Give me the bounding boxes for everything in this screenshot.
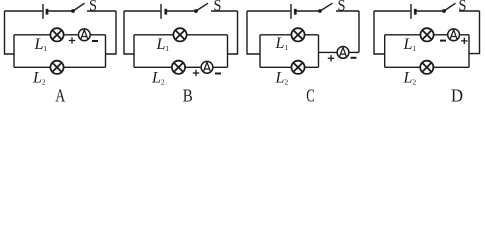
lamp L2 (C): [291, 61, 304, 74]
svg-text:L1: L1: [156, 36, 170, 53]
wire: C inner loop right side: [318, 35, 320, 68]
wire: C outer left vertical + connector: [247, 11, 260, 54]
lamp L2 (B): [172, 61, 185, 74]
wire: C top branch, left of lamp L1: [260, 34, 291, 36]
ammeter (D): [448, 29, 460, 41]
ammeter (A): [78, 29, 90, 41]
battery (B) negative plate: [164, 9, 167, 15]
switch S (C) blade: [320, 3, 333, 11]
wire: A top, left segment to battery: [5, 10, 43, 12]
ammeter (B): [201, 61, 213, 73]
polarity - of ammeter (C): [351, 57, 357, 59]
wire: A bottom branch, lamp to right: [64, 66, 106, 68]
battery (A) positive plate: [42, 4, 44, 19]
battery (C) positive plate: [290, 4, 292, 19]
svg-text:L1: L1: [275, 35, 289, 52]
wire: D inner loop left side: [384, 35, 386, 68]
wire: A inner loop left side: [13, 35, 15, 68]
wire: B top branch, left of lamp L1: [134, 34, 173, 36]
wire: D top, switch to right corner: [459, 10, 480, 12]
wire: C top, left segment to battery: [247, 10, 290, 12]
svg-text:A: A: [55, 86, 65, 103]
ammeter (C): [337, 47, 349, 59]
battery (D) positive plate: [410, 4, 412, 19]
wire: A top branch, lamp to ammeter: [64, 34, 78, 36]
battery (C) negative plate: [294, 9, 297, 15]
wire: A outer left vertical + connector: [5, 11, 15, 54]
polarity - of ammeter (A): [92, 40, 98, 42]
svg-text:S: S: [89, 0, 97, 15]
switch S (D) blade: [444, 3, 456, 11]
wire: B inner loop left side: [133, 35, 135, 68]
wire: B top, left segment to battery: [124, 10, 160, 12]
wire: D top, battery to switch: [416, 10, 444, 12]
svg-text:B: B: [183, 86, 193, 103]
wire: D top branch, left of lamp L1: [385, 34, 421, 36]
polarity + of ammeter (C): [328, 55, 334, 61]
svg-text:L2: L2: [403, 70, 417, 87]
svg-text:L2: L2: [151, 70, 165, 87]
wire: C bottom branch, lamp to right: [305, 66, 319, 68]
polarity + of ammeter (A): [69, 37, 75, 43]
switch S (A) blade: [73, 3, 85, 11]
battery (D) negative plate: [414, 9, 417, 15]
svg-text:L2: L2: [275, 70, 289, 87]
svg-text:L2: L2: [32, 70, 46, 87]
wire: A outer right vertical + connector: [106, 11, 117, 54]
lamp L1 (A): [50, 28, 63, 41]
wire: D top branch, lamp to ammeter: [434, 34, 447, 36]
polarity - of ammeter (B): [215, 73, 221, 75]
svg-text:S: S: [214, 0, 222, 15]
wire: C outer right vertical: [358, 11, 360, 52]
wire: D top branch, ammeter to right: [460, 34, 469, 36]
wire: B inner loop right side: [227, 35, 229, 68]
polarity - of ammeter (D): [440, 40, 446, 42]
wire: D outer left vertical + connector: [374, 11, 385, 54]
wire: B outer right vertical + connector: [228, 11, 238, 54]
wire: D outer right vertical + connector: [469, 11, 480, 54]
wire: B bottom branch, lamp to ammeter: [185, 66, 200, 68]
wire: D bottom branch, lamp to right: [434, 66, 469, 68]
wire: C inner loop left side: [259, 35, 261, 68]
wire: B top, switch to right corner: [211, 10, 238, 12]
svg-text:D: D: [451, 86, 463, 103]
svg-text:S: S: [459, 0, 467, 15]
lamp L2 (A): [50, 61, 63, 74]
svg-text:L1: L1: [34, 36, 48, 53]
wire: A top branch, ammeter to right: [91, 34, 106, 36]
wire: C bottom branch, left of lamp L2: [260, 66, 291, 68]
wire: A top branch, left of lamp L1: [14, 34, 50, 36]
wire: D top, left segment to battery: [374, 10, 410, 12]
wire: C mid level, ammeter to outer right: [349, 51, 359, 53]
switch S (B) pivot dot: [194, 9, 198, 13]
battery (A) negative plate: [46, 9, 49, 15]
wire: A top, battery to switch: [48, 10, 73, 12]
switch S (D) pivot dot: [442, 9, 446, 13]
switch S (B) blade: [196, 3, 208, 11]
switch S (C) pivot dot: [318, 9, 322, 13]
wire: B top, battery to switch: [167, 10, 197, 12]
polarity + of ammeter (B): [193, 70, 199, 76]
wire: D bottom branch, left of lamp L2: [385, 66, 420, 68]
wire: C mid level, inner box to ammeter: [319, 51, 337, 53]
battery (B) positive plate: [160, 4, 162, 19]
lamp L1 (B): [173, 28, 186, 41]
lamp L1 (C): [291, 28, 304, 41]
wire: C top, battery to switch: [296, 10, 320, 12]
svg-text:L1: L1: [403, 36, 417, 53]
wire: B top branch, lamp to right: [187, 34, 228, 36]
wire: B bottom branch, left of lamp L2: [134, 66, 172, 68]
wire: A inner loop right side: [105, 35, 107, 68]
wire: A top, switch to right corner: [87, 10, 116, 12]
svg-text:S: S: [338, 0, 346, 15]
wire: B bottom branch, ammeter to right: [214, 66, 228, 68]
polarity + of ammeter (D): [461, 38, 467, 44]
lamp L1 (D): [420, 28, 433, 41]
switch S (A) pivot dot: [71, 9, 75, 13]
lamp L2 (D): [420, 61, 433, 74]
wire: D inner loop right side: [468, 35, 470, 68]
wire: C top, switch to right corner: [336, 10, 359, 12]
wire: C top branch, lamp to right: [305, 34, 319, 36]
svg-text:C: C: [306, 86, 315, 103]
wire: B outer left vertical + connector: [124, 11, 134, 54]
wire: A bottom branch, left of lamp L2: [14, 66, 50, 68]
